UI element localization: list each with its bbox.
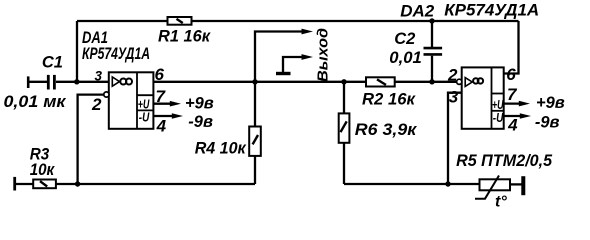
wire output lower branch bbox=[283, 57, 302, 74]
op-amp DA2 pin2 inversion circle bbox=[457, 79, 462, 84]
svg-text:7: 7 bbox=[156, 87, 167, 106]
capacitor C2 bbox=[424, 48, 443, 54]
svg-text:7: 7 bbox=[507, 85, 518, 104]
node C2 lower junction bbox=[429, 79, 434, 84]
ground chassis bar output common bbox=[276, 72, 291, 75]
node C2 top rail junction bbox=[429, 18, 434, 23]
wire left feedback vertical bbox=[76, 21, 78, 82]
wire bottom right line bbox=[344, 183, 480, 185]
svg-text:R1 16к: R1 16к bbox=[158, 27, 212, 45]
node DA2 pin3 bottom junction bbox=[445, 181, 450, 186]
svg-text:4: 4 bbox=[507, 115, 518, 134]
wire output arrow lower bbox=[302, 54, 314, 60]
svg-text:4: 4 bbox=[156, 117, 167, 136]
wire DA2 pin4 supply arrow bbox=[504, 113, 531, 119]
terminal R3 left bbox=[13, 177, 16, 191]
svg-text:-9в: -9в bbox=[535, 113, 560, 131]
wire R6 vertical branch bbox=[343, 82, 345, 184]
node C1 DA1 pin3 junction bbox=[74, 79, 79, 84]
wire DA2 pin3 down to bottom bbox=[448, 93, 462, 184]
wire output arrow top bbox=[302, 29, 314, 35]
wire DA2 pin7 supply arrow bbox=[504, 101, 530, 107]
svg-text:2: 2 bbox=[447, 65, 458, 84]
thermistor R5 bbox=[475, 176, 510, 199]
svg-text:R6 3,9к: R6 3,9к bbox=[355, 121, 418, 139]
resistor R4 bbox=[249, 127, 261, 156]
svg-text:КР574УД1А: КР574УД1А bbox=[82, 45, 150, 63]
capacitor C1 bbox=[48, 75, 54, 90]
svg-text:R2 16к: R2 16к bbox=[362, 90, 417, 108]
wire R5 to right terminal bbox=[510, 183, 522, 185]
svg-text:6: 6 bbox=[506, 65, 516, 84]
wire DA1 pin7 supply arrow bbox=[153, 101, 181, 107]
svg-text:10к: 10к bbox=[30, 161, 56, 179]
wire C2 vertical lower bbox=[431, 56, 433, 82]
wire output branch up bbox=[255, 32, 302, 82]
wire DA2 pin6 to top rail bbox=[504, 21, 519, 74]
resistor R3 bbox=[33, 180, 56, 189]
wire R4 vertical branch bbox=[254, 82, 256, 184]
wire input line from terminal to C1 bbox=[29, 81, 47, 83]
resistor R2 bbox=[366, 77, 395, 86]
svg-text:C2: C2 bbox=[394, 30, 415, 48]
svg-text:R4 10к: R4 10к bbox=[195, 139, 248, 157]
svg-text:DA2: DA2 bbox=[400, 1, 435, 20]
svg-text:+9в: +9в bbox=[185, 94, 214, 112]
wire DA1 output line to DA2 pin2 bbox=[153, 81, 456, 83]
node R6 tap junction bbox=[341, 79, 346, 84]
wire DA1 pin4 supply arrow bbox=[153, 113, 183, 119]
resistor R6 bbox=[339, 113, 350, 142]
terminal input left bbox=[27, 76, 30, 88]
resistor R1 bbox=[168, 17, 192, 25]
op-amp DA1 bbox=[109, 72, 154, 129]
wire C1 to DA1 pin3 bbox=[56, 81, 109, 83]
svg-text:-U: -U bbox=[139, 109, 150, 124]
node DA1 output junction bbox=[252, 79, 257, 84]
terminal right after R5 bbox=[521, 176, 525, 195]
wire DA1 pin2 to left vertical bbox=[78, 95, 105, 184]
wire C2 vertical upper bbox=[431, 21, 433, 47]
svg-text:-9в: -9в bbox=[188, 113, 213, 131]
svg-text:2: 2 bbox=[91, 95, 102, 114]
svg-text:КР574УД1А: КР574УД1А bbox=[444, 1, 539, 20]
wire top feedback rail bbox=[77, 20, 519, 22]
svg-text:0,01: 0,01 bbox=[389, 49, 422, 67]
svg-text:R5 ПТМ2/0,5: R5 ПТМ2/0,5 bbox=[456, 152, 553, 170]
svg-text:3: 3 bbox=[449, 88, 459, 107]
op-amp DA1 pin2 inversion circle bbox=[104, 92, 109, 97]
svg-text:t°: t° bbox=[495, 193, 507, 210]
wire bottom left line R3 run bbox=[15, 183, 255, 185]
svg-text:6: 6 bbox=[155, 65, 165, 84]
svg-text:C1: C1 bbox=[42, 54, 63, 72]
node R3 DA1 pin2 junction bbox=[75, 181, 80, 186]
svg-text:0,01 мк: 0,01 мк bbox=[4, 93, 68, 111]
op-amp DA2 bbox=[462, 67, 504, 128]
svg-text:-U: -U bbox=[493, 110, 504, 125]
svg-text:Выход: Выход bbox=[314, 28, 331, 82]
svg-text:+9в: +9в bbox=[536, 94, 565, 112]
svg-text:3: 3 bbox=[95, 68, 103, 84]
